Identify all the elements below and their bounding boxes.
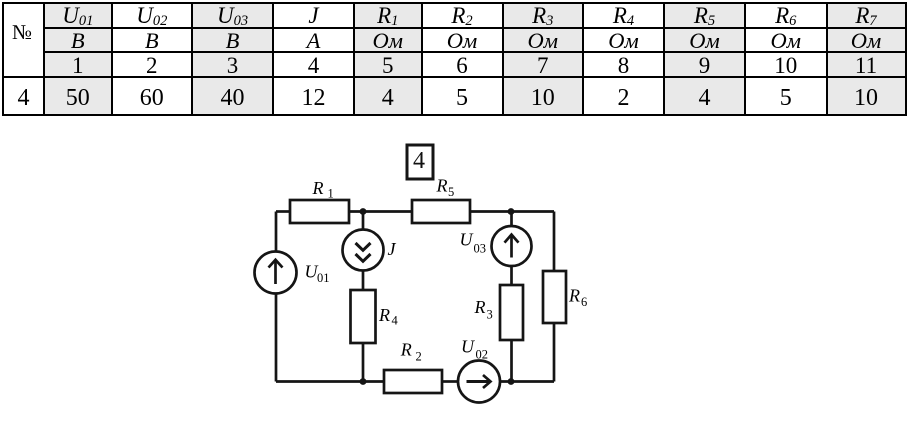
svg-text:U02: U02: [461, 337, 488, 362]
svg-text:R2: R2: [400, 340, 422, 364]
svg-text:R5: R5: [436, 176, 455, 200]
svg-text:R3: R3: [474, 297, 493, 322]
node A junction dot: [360, 208, 367, 215]
svg-text:R4: R4: [378, 305, 399, 328]
resistor R5: [412, 200, 470, 223]
current source J: [343, 230, 384, 271]
svg-text:J: J: [388, 239, 397, 259]
wire node B down to U03: [510, 212, 513, 227]
wire bottom left: [276, 380, 384, 383]
variant box 4: [407, 145, 433, 179]
svg-text:U03: U03: [460, 230, 487, 256]
wire left vertical lower: [275, 294, 278, 382]
svg-text:R6: R6: [568, 286, 587, 310]
wire R5 right to top-right corner: [470, 210, 554, 213]
data table: [2, 2, 907, 116]
bottom node left junction dot: [360, 378, 367, 385]
J chevrons: [356, 243, 371, 250]
wire R4 to bottom node: [362, 343, 365, 382]
wire R2 to U02: [442, 380, 458, 383]
wire node A down to J: [362, 212, 365, 230]
resistor R3: [500, 285, 523, 340]
wire top left horizontal: [276, 210, 290, 213]
U01 arrow: [274, 261, 277, 284]
svg-text:U01: U01: [305, 262, 330, 286]
svg-text:4: 4: [413, 148, 425, 174]
wire R3 to bottom node: [510, 340, 513, 382]
wire J to R4: [362, 271, 365, 291]
svg-text:R1: R1: [312, 178, 334, 201]
wire U03 to R3: [510, 266, 513, 285]
resistor R4: [351, 290, 376, 343]
source U03: [492, 226, 532, 266]
source U02: [458, 361, 500, 403]
wire left vertical upper: [275, 212, 278, 252]
resistor R6: [543, 271, 566, 323]
source U01: [255, 252, 297, 294]
wire R1 to node A: [349, 210, 412, 213]
wire right vertical upper: [553, 212, 556, 272]
resistor R2: [384, 370, 442, 393]
U02 arrow: [467, 380, 490, 383]
U03 arrow: [510, 236, 513, 258]
wire right vertical lower: [553, 323, 556, 382]
resistor R1: [290, 200, 349, 223]
node B junction dot: [508, 208, 515, 215]
bottom node right junction dot: [508, 378, 515, 385]
wire U02 to bottom-right corner: [500, 380, 554, 383]
